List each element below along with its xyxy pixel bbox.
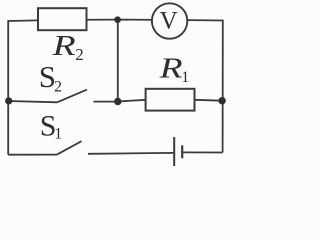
svg-text:R: R bbox=[51, 31, 75, 62]
wire S1 to battery bbox=[88, 152, 174, 155]
voltmeter U1 circle bbox=[152, 3, 187, 38]
wire middle row left bbox=[9, 101, 58, 102]
wire middle row S2 to node B bbox=[94, 101, 118, 103]
node C junction dot (right) bbox=[218, 97, 225, 104]
battery long plate bbox=[173, 137, 175, 166]
svg-text:R: R bbox=[158, 53, 182, 84]
resistor R1 bbox=[146, 89, 195, 111]
wire middle vertical from node A to node B bbox=[117, 20, 119, 102]
switch S1 blade bbox=[57, 141, 82, 154]
node D junction dot (left) bbox=[5, 97, 12, 104]
switch S2 blade bbox=[57, 90, 87, 103]
wire bottom row left bbox=[8, 154, 57, 156]
node B junction dot bbox=[114, 98, 121, 105]
wire left vertical bbox=[7, 20, 9, 155]
wire battery to right vertical bbox=[182, 151, 222, 153]
wire right vertical bbox=[222, 20, 224, 153]
resistor R2 bbox=[38, 8, 87, 30]
node A junction dot bbox=[114, 16, 121, 23]
svg-text:2: 2 bbox=[75, 45, 84, 64]
wire node B to R1 bbox=[118, 100, 146, 102]
wire R1 to node C bbox=[194, 99, 222, 102]
svg-text:V: V bbox=[160, 8, 178, 35]
svg-text:2: 2 bbox=[54, 78, 62, 95]
svg-text:1: 1 bbox=[181, 69, 189, 86]
battery short plate bbox=[181, 145, 183, 158]
svg-text:1: 1 bbox=[54, 126, 62, 143]
wire top row bbox=[8, 20, 223, 21]
